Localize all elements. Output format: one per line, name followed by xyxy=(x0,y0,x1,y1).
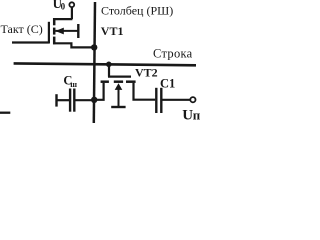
svg-text:C1: C1 xyxy=(160,77,175,91)
svg-text:Строка: Строка xyxy=(153,46,193,60)
svg-text:п: п xyxy=(193,108,200,123)
svg-text:VT1: VT1 xyxy=(101,24,124,38)
svg-text:U: U xyxy=(182,108,193,124)
svg-text:Столбец (РШ): Столбец (РШ) xyxy=(101,4,173,18)
svg-text:ш: ш xyxy=(70,80,77,89)
svg-text:Такт (С): Такт (С) xyxy=(1,22,43,36)
svg-text:VT2: VT2 xyxy=(135,66,158,80)
svg-text:0: 0 xyxy=(61,2,66,12)
